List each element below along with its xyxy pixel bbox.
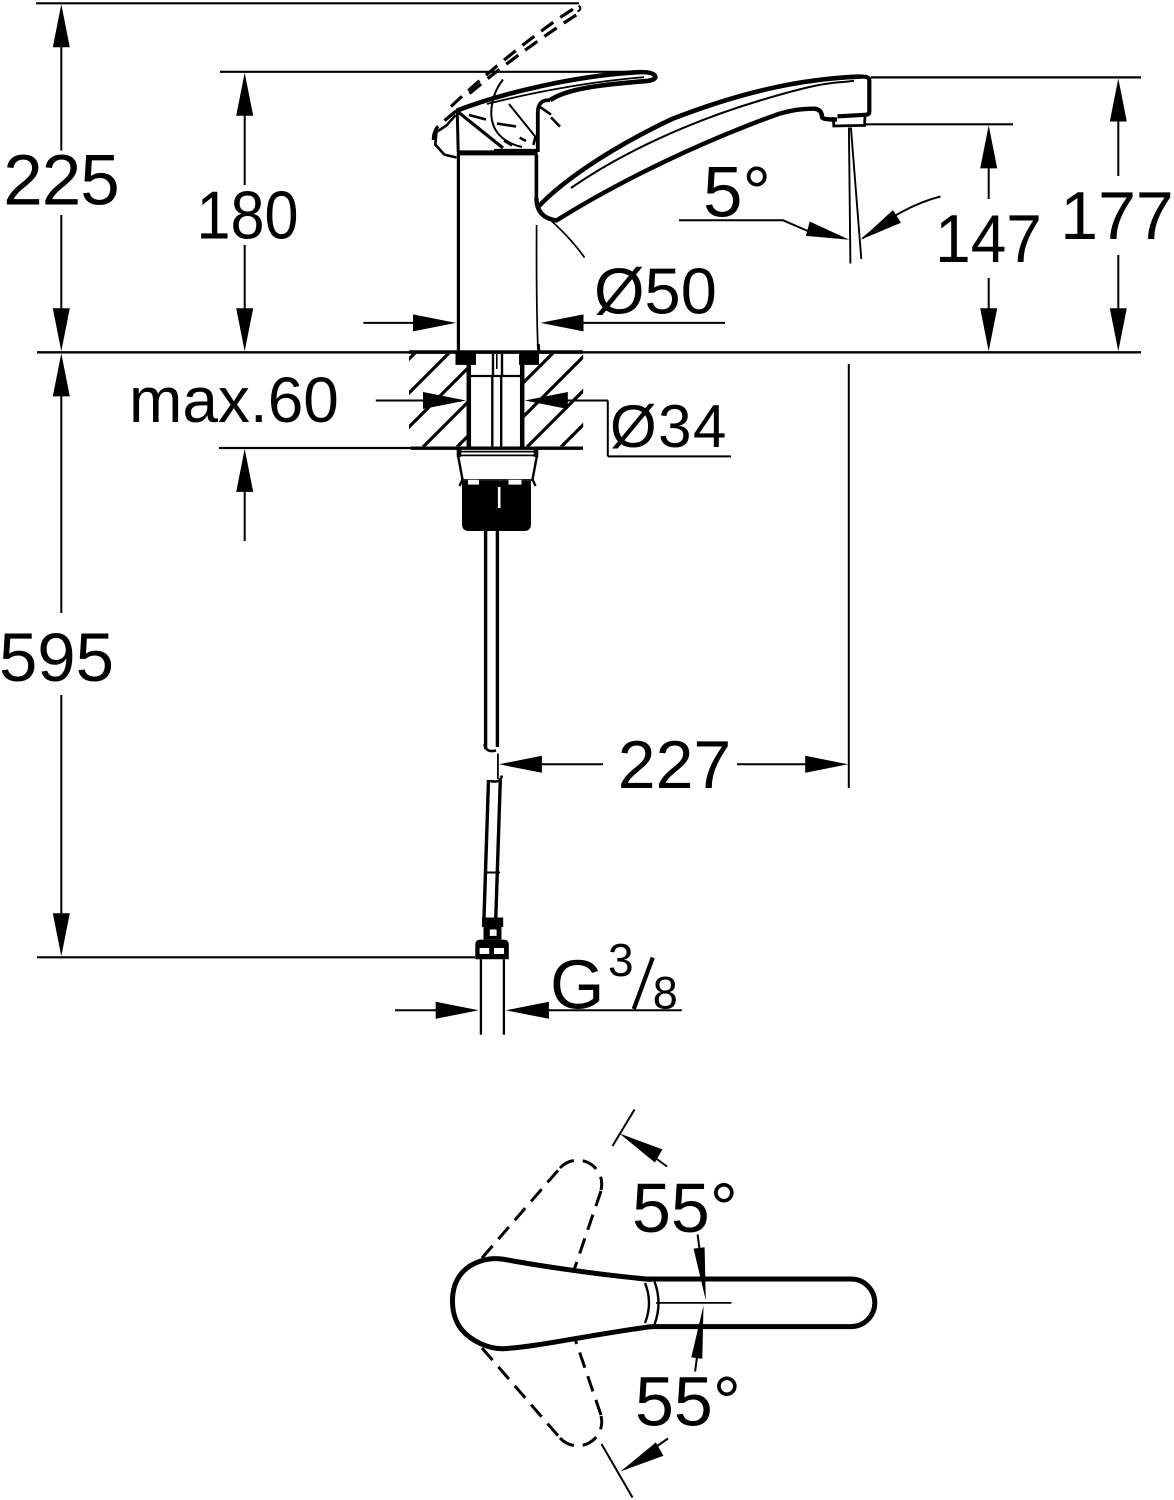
svg-text:55°: 55° [632, 1169, 738, 1247]
5 deg right leader arc [863, 197, 941, 239]
countertop thick segment over counter block [409, 350, 583, 354]
outlet reference line (147) [866, 123, 1013, 125]
55 deg top extension line [613, 1110, 635, 1147]
washer lines [459, 451, 537, 453]
5 deg left arrowhead [806, 222, 849, 240]
svg-text:147: 147 [935, 200, 1042, 276]
dimension 180 line [244, 113, 246, 311]
nut top notches [468, 480, 479, 485]
lever front diagonal (nose to dome) [458, 112, 504, 149]
raised handle bulb outline (dashed) [433, 111, 456, 141]
dimension 177 arrow up [1110, 79, 1127, 122]
nut white slit [498, 487, 501, 508]
dimension G3/8 right line [548, 1009, 682, 1011]
dimension Ø50 left line [363, 322, 415, 324]
spout top edge [539, 77, 861, 207]
pipe joint tick [485, 872, 501, 874]
5 deg leader line [679, 220, 809, 231]
countertop line [37, 351, 1141, 353]
shank cross line [467, 375, 524, 377]
shank dia arrow right-pointing [423, 392, 466, 409]
spout underside (fillet to step and aerator shelf) [536, 109, 837, 221]
shank dia arrow left-pointing [525, 392, 568, 409]
dimension 227 arrow right-pointing [805, 756, 848, 773]
55 deg bottom inner arrow [691, 1306, 703, 1359]
svg-text:227: 227 [618, 727, 731, 803]
dashed rotated bulb (up 55) [482, 1160, 602, 1273]
dimension 177 line [1117, 119, 1119, 310]
spout outlet face [838, 77, 870, 117]
pipe break hook lower [490, 776, 502, 782]
dimension 225 arrow up [53, 4, 70, 47]
dome seam thin line [494, 149, 536, 151]
label Ø34 leader vertical [607, 401, 609, 457]
svg-text:595: 595 [0, 619, 114, 696]
227 extension line (outlet axis) [848, 364, 850, 788]
handle left edge [457, 110, 458, 153]
dimension 227 line left [541, 763, 603, 765]
dimension Ø50 right line [583, 322, 726, 324]
lever inner highlight line [487, 77, 644, 104]
dome crossing diagonal [509, 104, 538, 140]
dimension 595 arrow down [53, 913, 70, 956]
water stream right line (tilted 5 deg) [851, 128, 861, 260]
base collar tab left [456, 354, 477, 365]
svg-text:180: 180 [196, 176, 298, 253]
svg-text:55°: 55° [635, 1363, 741, 1441]
55 deg bottom outer arrowhead [621, 1442, 664, 1471]
dimension 147 arrow down [980, 308, 997, 351]
spout root shadow line [546, 216, 585, 258]
55 deg top outer stub [654, 1157, 667, 1167]
hatch left block [321, 353, 689, 447]
pipe end middle piece [484, 927, 502, 940]
svg-text:Ø50: Ø50 [594, 255, 717, 328]
55 deg bottom outer stub [655, 1439, 668, 1448]
55 deg top inner stub [698, 1235, 700, 1250]
plan lever (white fill) [648, 1279, 875, 1327]
dimension Ø50 arrow right-pointing [413, 314, 456, 331]
line above nut [461, 479, 534, 481]
595 bottom datum line [37, 956, 475, 958]
max.60 bottom arrow tail [244, 489, 246, 541]
dimension G3/8 left line [395, 1009, 437, 1011]
max.60 bottom arrow [236, 449, 253, 492]
reference line 180 (handle top) [220, 71, 650, 73]
227 extension stub at pipe [497, 754, 499, 780]
joint arcs [645, 1283, 649, 1323]
body base flare right [537, 344, 541, 352]
55 deg bottom inner stub [695, 1357, 697, 1372]
spout top reference line (177) [871, 76, 1141, 78]
svg-text:max.60: max.60 [129, 364, 339, 436]
55 deg top inner arrow [694, 1247, 706, 1300]
mounting nut (black) [462, 481, 531, 531]
aerator [833, 116, 865, 127]
base collar tab right [519, 354, 539, 365]
label Ø34 underline [608, 455, 731, 457]
dimension 595 line [60, 394, 62, 916]
tailpiece [480, 959, 482, 1035]
counter bottom thick line [411, 447, 583, 450]
svg-text:3: 3 [608, 934, 634, 986]
water stream left line [849, 128, 851, 264]
5 deg right arrowhead [861, 210, 901, 240]
dashed rotated bulb (down 55) [482, 1333, 602, 1446]
shank right edge [520, 353, 525, 447]
svg-text:G: G [550, 946, 604, 1024]
raised lever tip [578, 6, 581, 12]
fraction slash [634, 958, 653, 1010]
shank dia leader line right [567, 400, 608, 402]
lever white fill [457, 72, 655, 151]
counter max depth line (thin left part) [219, 447, 411, 449]
dimension 595 arrow up [53, 353, 70, 396]
pipe lower segment [484, 780, 489, 918]
lever outline (top edge, tip, bottom edge) [457, 72, 655, 110]
plan centerline [656, 1302, 732, 1304]
55 deg bottom extension line [602, 1444, 633, 1498]
plan bulb outline [452, 1259, 652, 1349]
dimension 227 line right [737, 763, 807, 765]
pipe end collar [482, 918, 503, 928]
svg-text:Ø34: Ø34 [610, 393, 728, 460]
washer side edges [458, 457, 462, 487]
body right edge (upper) [535, 155, 539, 202]
dimension Ø50 arrow left-pointing [541, 314, 584, 331]
dimension G3/8 arrow right-pointing [436, 1002, 479, 1019]
dimension 147 line [988, 166, 990, 310]
raised lever lower edge (dashed) [470, 14, 579, 94]
dimension 227 arrow left-pointing [499, 756, 542, 773]
raised lever upper edge (dashed) [451, 6, 579, 107]
handle base solid zigzag (left) [435, 115, 456, 157]
washer end blobs [457, 449, 462, 457]
top reference line (raised handle height) [36, 2, 579, 4]
plan bulb fill [452, 1259, 652, 1349]
body left edge [457, 153, 460, 351]
shank inner tube lines (lower) [491, 376, 493, 447]
svg-text:8: 8 [653, 968, 678, 1019]
dimension 180 arrow up [236, 73, 253, 116]
dome hidden-edge dashes [469, 107, 560, 145]
svg-text:225: 225 [3, 142, 118, 221]
dimension 177 arrow down [1110, 308, 1127, 351]
dimension 225 line [60, 44, 62, 311]
dimension 180 arrow down [236, 308, 253, 351]
raised lever neck curve (thin) [491, 80, 522, 148]
shank left edge [467, 353, 472, 447]
pipe upper segment [484, 531, 487, 749]
lever neck [538, 100, 550, 152]
shank dia leader line left [376, 400, 424, 402]
shank inner tube lines (upper) [492, 354, 494, 376]
pipe break hook upper [485, 744, 497, 751]
55 deg top outer arrowhead [620, 1134, 663, 1163]
pipe end nut [475, 940, 509, 960]
dimension 225 arrow down [53, 308, 70, 351]
dimension G3/8 arrow left-pointing [506, 1002, 549, 1019]
spout inner line [571, 81, 854, 188]
svg-text:177: 177 [1060, 178, 1173, 254]
body right edge (thin, behind spout) [537, 225, 538, 345]
dome top seam (thick) [457, 150, 538, 155]
dimension 147 arrow up [980, 125, 997, 168]
